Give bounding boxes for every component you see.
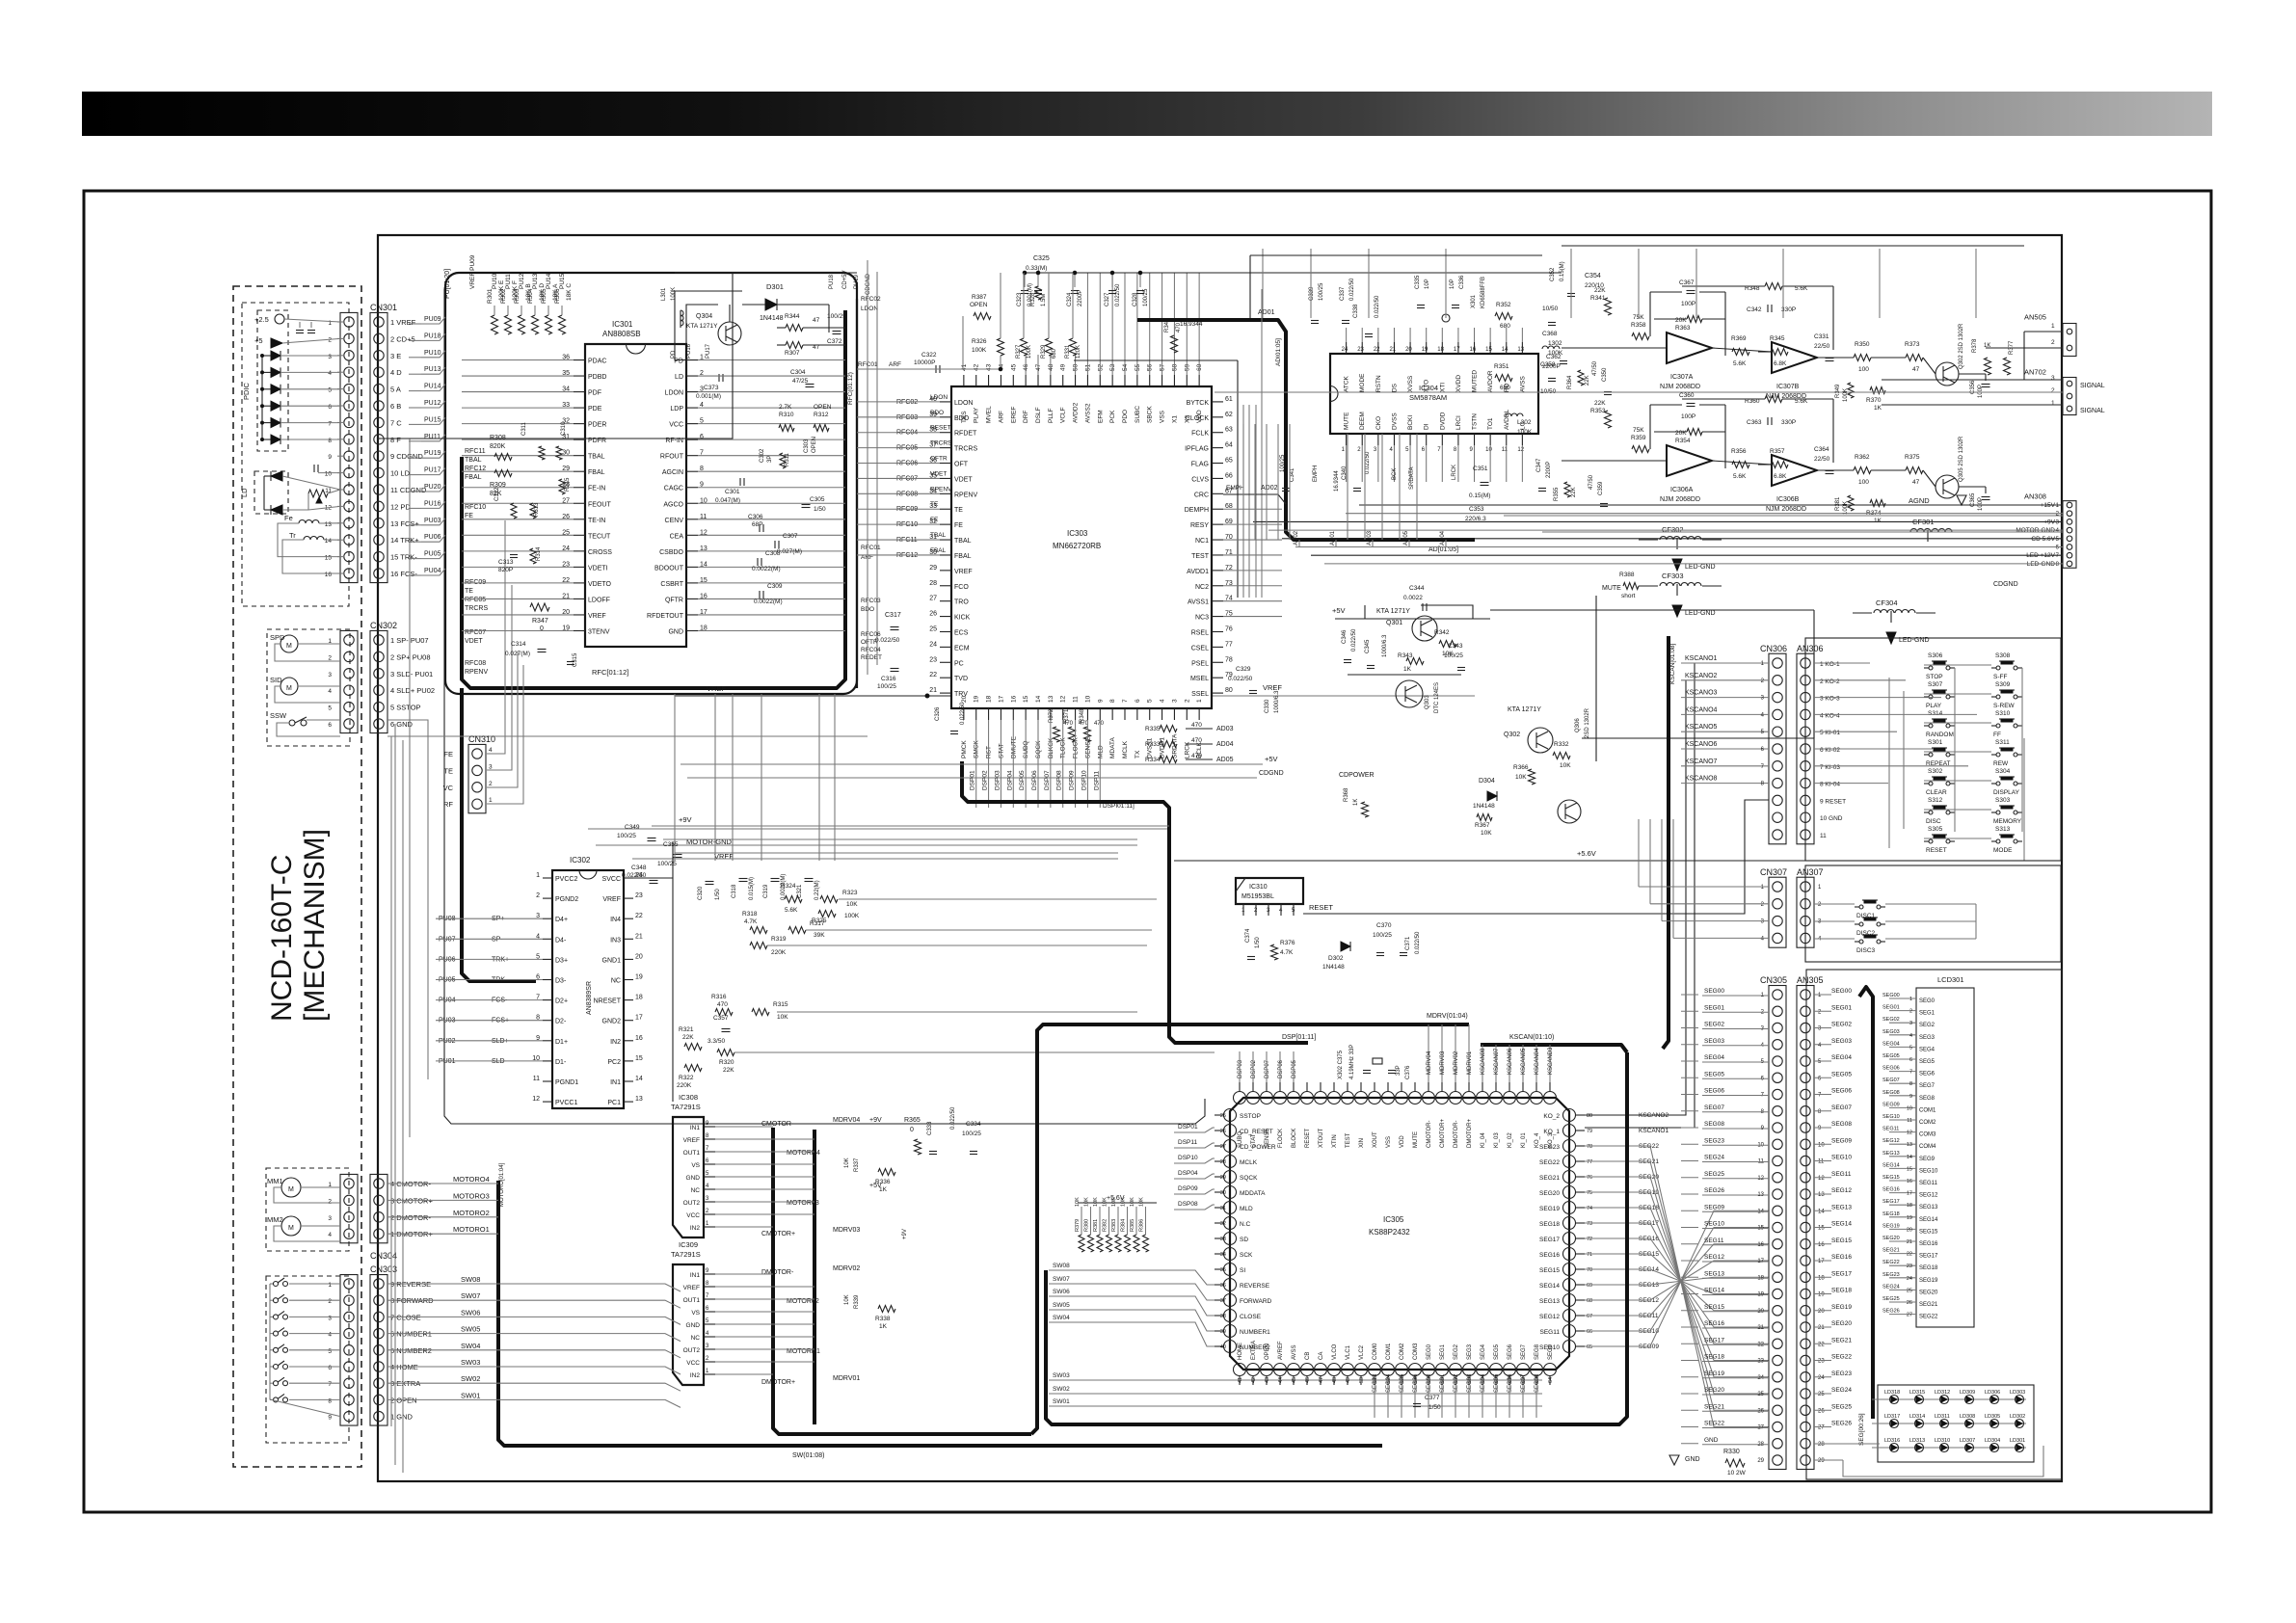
svg-text:1000/6.3: 1000/6.3 bbox=[1274, 690, 1280, 713]
svg-text:C351: C351 bbox=[1473, 466, 1488, 472]
svg-text:IN1: IN1 bbox=[690, 1272, 701, 1279]
svg-text:R380: R380 bbox=[1084, 1219, 1090, 1232]
svg-text:R366: R366 bbox=[1513, 764, 1529, 771]
svg-text:PC: PC bbox=[954, 660, 964, 667]
svg-text:18: 18 bbox=[986, 695, 993, 703]
svg-text:15 TRK-: 15 TRK- bbox=[390, 553, 417, 562]
svg-text:SEG00: SEG00 bbox=[1427, 1373, 1432, 1393]
svg-text:XTOUT: XTOUT bbox=[1319, 1128, 1324, 1148]
svg-text:OUT2: OUT2 bbox=[683, 1347, 701, 1354]
svg-text:C326: C326 bbox=[935, 706, 941, 721]
svg-text:S308: S308 bbox=[1995, 652, 2011, 659]
svg-text:470: 470 bbox=[1094, 721, 1105, 727]
svg-text:PDBD: PDBD bbox=[588, 374, 606, 381]
svg-text:10K: 10K bbox=[1093, 1197, 1099, 1207]
svg-text:SEG16: SEG16 bbox=[1539, 1252, 1560, 1259]
svg-text:R385: R385 bbox=[1130, 1219, 1135, 1232]
svg-text:PU12: PU12 bbox=[519, 273, 525, 289]
svg-text:1: 1 bbox=[328, 1282, 332, 1289]
svg-text:COM4: COM4 bbox=[1919, 1144, 1936, 1150]
svg-text:S310: S310 bbox=[1995, 710, 2011, 717]
svg-text:SEG07: SEG07 bbox=[1521, 1373, 1527, 1393]
svg-text:BDOOUT: BDOOUT bbox=[654, 565, 684, 572]
svg-text:1 GND: 1 GND bbox=[390, 1413, 414, 1422]
svg-text:8: 8 bbox=[1109, 699, 1116, 703]
svg-text:1N4148: 1N4148 bbox=[760, 315, 784, 322]
svg-text:RF: RF bbox=[443, 800, 453, 809]
svg-text:TECUT: TECUT bbox=[588, 533, 611, 540]
svg-text:DSP07: DSP07 bbox=[1044, 770, 1051, 790]
svg-text:SEG6: SEG6 bbox=[1508, 1344, 1513, 1360]
svg-text:DMOTOR-: DMOTOR- bbox=[761, 1269, 794, 1276]
svg-text:SEG21: SEG21 bbox=[1704, 1403, 1724, 1410]
svg-text:SPD: SPD bbox=[270, 633, 285, 642]
svg-text:+5V: +5V bbox=[1265, 755, 1278, 763]
svg-text:DSP02: DSP02 bbox=[982, 770, 989, 790]
svg-text:PU11: PU11 bbox=[424, 434, 441, 440]
svg-text:SEG9: SEG9 bbox=[1548, 1344, 1554, 1360]
svg-text:4: 4 bbox=[328, 370, 332, 377]
svg-text:VREF: VREF bbox=[683, 1285, 700, 1291]
svg-text:MOTORO[01:04]: MOTORO[01:04] bbox=[499, 1162, 505, 1207]
svg-text:MDATA: MDATA bbox=[1109, 737, 1116, 758]
svg-text:5 KI-01: 5 KI-01 bbox=[1820, 730, 1840, 736]
svg-text:FLAG: FLAG bbox=[1191, 462, 1209, 468]
svg-text:5: 5 bbox=[328, 1348, 332, 1355]
svg-text:MN662720RB: MN662720RB bbox=[1053, 542, 1101, 550]
svg-text:R306: R306 bbox=[554, 288, 561, 304]
svg-text:77: 77 bbox=[1587, 1159, 1592, 1165]
svg-text:19: 19 bbox=[974, 695, 980, 703]
svg-text:66: 66 bbox=[1587, 1329, 1592, 1335]
svg-text:+5V: +5V bbox=[1332, 606, 1346, 615]
svg-text:R384: R384 bbox=[1121, 1219, 1127, 1232]
svg-text:0: 0 bbox=[540, 625, 544, 632]
svg-text:AN505: AN505 bbox=[2024, 312, 2046, 321]
svg-text:PU12: PU12 bbox=[424, 400, 441, 407]
svg-text:PSEL: PSEL bbox=[1191, 660, 1209, 667]
svg-text:M: M bbox=[288, 1186, 294, 1193]
svg-text:7: 7 bbox=[1122, 699, 1129, 703]
svg-text:SEG17: SEG17 bbox=[1882, 1199, 1900, 1205]
svg-text:S-FF: S-FF bbox=[1993, 674, 2007, 680]
svg-text:66: 66 bbox=[1225, 472, 1233, 479]
svg-text:M: M bbox=[286, 643, 292, 650]
svg-text:EREF: EREF bbox=[1010, 407, 1017, 423]
svg-text:PC1: PC1 bbox=[607, 1100, 621, 1106]
svg-text:SBCK: SBCK bbox=[1147, 406, 1154, 423]
svg-text:FE: FE bbox=[443, 750, 453, 758]
svg-text:14: 14 bbox=[1035, 695, 1042, 703]
svg-text:PD: PD bbox=[671, 350, 677, 359]
svg-text:DISC: DISC bbox=[1926, 818, 1941, 825]
svg-text:SEG05: SEG05 bbox=[1831, 1071, 1852, 1078]
svg-text:PU19: PU19 bbox=[424, 450, 441, 457]
svg-text:XTO: XTO bbox=[1424, 380, 1430, 392]
svg-text:23: 23 bbox=[1907, 1264, 1912, 1269]
svg-text:R355: R355 bbox=[1554, 487, 1560, 501]
svg-text:680: 680 bbox=[1052, 348, 1057, 359]
svg-text:1N4148: 1N4148 bbox=[1322, 964, 1345, 971]
svg-text:S305: S305 bbox=[1928, 826, 1943, 833]
svg-text:PU16: PU16 bbox=[424, 500, 441, 507]
svg-text:C345: C345 bbox=[1365, 639, 1371, 653]
svg-text:0: 0 bbox=[910, 1127, 914, 1133]
svg-text:SEG12: SEG12 bbox=[1882, 1138, 1900, 1144]
svg-text:R371: R371 bbox=[1064, 708, 1070, 723]
svg-text:4 D: 4 D bbox=[390, 368, 402, 377]
svg-text:IN2: IN2 bbox=[690, 1225, 701, 1232]
svg-text:0.33(M): 0.33(M) bbox=[1026, 265, 1047, 272]
svg-text:SEG17: SEG17 bbox=[1539, 1237, 1560, 1243]
svg-text:GND: GND bbox=[686, 1322, 701, 1329]
svg-text:EMPH: EMPH bbox=[1226, 485, 1244, 492]
svg-text:CN301: CN301 bbox=[370, 303, 397, 312]
svg-text:DI: DI bbox=[1424, 423, 1430, 430]
svg-text:D3+: D3+ bbox=[555, 957, 568, 964]
svg-text:17: 17 bbox=[1907, 1191, 1912, 1197]
svg-text:19: 19 bbox=[635, 974, 643, 981]
svg-text:ATCK: ATCK bbox=[1344, 375, 1350, 392]
svg-text:SEG2: SEG2 bbox=[1454, 1344, 1459, 1360]
svg-text:SEG22: SEG22 bbox=[1704, 1421, 1724, 1427]
svg-text:7 C: 7 C bbox=[390, 418, 402, 427]
svg-text:2200P: 2200P bbox=[1546, 462, 1552, 478]
svg-text:SEG0: SEG0 bbox=[1427, 1344, 1432, 1360]
svg-text:C339: C339 bbox=[1309, 286, 1315, 301]
svg-text:SEG04: SEG04 bbox=[1882, 1041, 1900, 1047]
svg-text:SEG14: SEG14 bbox=[1539, 1283, 1560, 1290]
svg-text:SEG21: SEG21 bbox=[1882, 1248, 1900, 1254]
svg-text:NJM 2068DD: NJM 2068DD bbox=[1660, 496, 1700, 503]
svg-text:5.6K: 5.6K bbox=[1733, 360, 1747, 367]
svg-text:R357: R357 bbox=[1770, 448, 1785, 455]
svg-text:DSP06: DSP06 bbox=[1278, 1059, 1284, 1078]
svg-text:PU20: PU20 bbox=[424, 484, 441, 491]
svg-text:4.7K: 4.7K bbox=[744, 918, 758, 925]
svg-text:R348: R348 bbox=[1080, 708, 1085, 723]
svg-text:D3-: D3- bbox=[555, 978, 567, 985]
svg-text:0.001(M): 0.001(M) bbox=[696, 393, 721, 400]
svg-text:1/50: 1/50 bbox=[715, 889, 721, 900]
svg-text:SEG10: SEG10 bbox=[1882, 1114, 1900, 1120]
svg-text:PU19: PU19 bbox=[854, 274, 860, 289]
svg-text:SW02: SW02 bbox=[461, 1374, 480, 1383]
svg-text:16: 16 bbox=[1010, 695, 1017, 703]
svg-text:10P: 10P bbox=[1425, 279, 1430, 289]
svg-text:RESET: RESET bbox=[1926, 847, 1947, 854]
svg-text:9 RESET: 9 RESET bbox=[1820, 798, 1846, 805]
svg-text:SW05: SW05 bbox=[1053, 1302, 1070, 1309]
svg-text:2: 2 bbox=[2051, 339, 2055, 346]
svg-text:4 KO-4: 4 KO-4 bbox=[1820, 712, 1840, 719]
svg-text:25: 25 bbox=[1818, 1392, 1825, 1397]
svg-text:+5.6V: +5.6V bbox=[1107, 1195, 1125, 1202]
svg-text:64: 64 bbox=[1548, 1377, 1554, 1383]
svg-text:D4-: D4- bbox=[555, 937, 567, 944]
svg-text:820P: 820P bbox=[498, 567, 513, 573]
svg-text:SEG15: SEG15 bbox=[1919, 1229, 1938, 1235]
svg-text:LDON: LDON bbox=[665, 390, 683, 397]
svg-text:SEG16: SEG16 bbox=[1882, 1187, 1900, 1193]
svg-text:MSEL: MSEL bbox=[1190, 676, 1209, 682]
svg-text:19: 19 bbox=[1422, 347, 1428, 353]
svg-text:6: 6 bbox=[328, 404, 332, 411]
svg-text:38: 38 bbox=[1220, 1314, 1226, 1319]
svg-text:DMOTOR+: DMOTOR+ bbox=[1467, 1118, 1473, 1148]
svg-text:SEG18: SEG18 bbox=[1539, 1221, 1560, 1228]
svg-text:PVCC1: PVCC1 bbox=[555, 1100, 577, 1106]
svg-text:100K: 100K bbox=[1517, 429, 1533, 436]
svg-text:KSCAN05: KSCAN05 bbox=[1521, 1048, 1527, 1075]
svg-text:SEG22: SEG22 bbox=[1539, 1159, 1560, 1166]
svg-text:30: 30 bbox=[1220, 1190, 1226, 1196]
svg-text:26: 26 bbox=[1818, 1408, 1825, 1414]
svg-text:BLOCK: BLOCK bbox=[1292, 1129, 1297, 1148]
svg-text:R338: R338 bbox=[875, 1316, 891, 1322]
svg-text:62: 62 bbox=[1225, 412, 1233, 418]
svg-text:21: 21 bbox=[1907, 1239, 1912, 1245]
svg-text:31: 31 bbox=[1220, 1206, 1226, 1211]
svg-text:STOP: STOP bbox=[1926, 674, 1943, 680]
svg-text:CSBRT: CSBRT bbox=[660, 581, 683, 588]
svg-text:R358: R358 bbox=[1631, 322, 1646, 329]
svg-text:SEG9: SEG9 bbox=[1919, 1157, 1936, 1162]
svg-text:MCLK: MCLK bbox=[1240, 1159, 1258, 1166]
svg-text:PU13: PU13 bbox=[532, 273, 539, 289]
svg-text:R315: R315 bbox=[773, 1001, 788, 1008]
svg-text:C355: C355 bbox=[663, 841, 679, 848]
svg-text:DSP[01:11]: DSP[01:11] bbox=[1282, 1034, 1316, 1041]
svg-text:DS: DS bbox=[1391, 383, 1398, 392]
svg-text:15: 15 bbox=[1485, 347, 1492, 353]
svg-text:C346: C346 bbox=[1342, 629, 1348, 644]
svg-text:D4+: D4+ bbox=[555, 917, 568, 923]
svg-text:LD310: LD310 bbox=[1935, 1438, 1950, 1444]
svg-text:11 CDGND: 11 CDGND bbox=[390, 486, 427, 494]
svg-text:R356: R356 bbox=[1731, 448, 1747, 455]
svg-text:LD: LD bbox=[240, 488, 249, 497]
svg-text:25: 25 bbox=[1907, 1288, 1912, 1293]
svg-text:4: 4 bbox=[489, 747, 493, 754]
svg-text:2200P: 2200P bbox=[1078, 290, 1083, 306]
svg-text:4: 4 bbox=[328, 1232, 332, 1238]
svg-text:DSP04: DSP04 bbox=[1006, 770, 1013, 790]
svg-text:S311: S311 bbox=[1995, 739, 2010, 746]
svg-text:PU17: PU17 bbox=[424, 467, 441, 474]
svg-text:4 SLD+ PU02: 4 SLD+ PU02 bbox=[390, 686, 435, 695]
svg-text:47: 47 bbox=[813, 344, 820, 351]
svg-text:C310: C310 bbox=[561, 421, 567, 436]
svg-text:100/25: 100/25 bbox=[1373, 932, 1392, 939]
svg-text:MEMORY: MEMORY bbox=[1993, 818, 2022, 825]
svg-text:100P: 100P bbox=[1681, 413, 1695, 420]
svg-text:ARF: ARF bbox=[889, 361, 901, 368]
svg-text:MDRV01: MDRV01 bbox=[833, 1375, 860, 1382]
svg-text:AN308: AN308 bbox=[2024, 492, 2046, 500]
svg-text:4: 4 bbox=[1909, 1033, 1912, 1039]
svg-text:KSCAN06: KSCAN06 bbox=[1508, 1048, 1513, 1075]
svg-text:PGND1: PGND1 bbox=[555, 1079, 578, 1086]
svg-text:R321: R321 bbox=[679, 1026, 694, 1033]
svg-text:SQCK: SQCK bbox=[1240, 1175, 1258, 1182]
svg-text:SEG22: SEG22 bbox=[1919, 1315, 1938, 1320]
svg-text:100/25: 100/25 bbox=[877, 683, 896, 690]
svg-text:2200P: 2200P bbox=[1542, 363, 1561, 370]
svg-text:KI_02: KI_02 bbox=[1508, 1132, 1513, 1148]
svg-text:SEG08: SEG08 bbox=[1831, 1121, 1852, 1128]
svg-text:2SD 1302R: 2SD 1302R bbox=[1585, 707, 1590, 738]
svg-text:SEG02: SEG02 bbox=[1454, 1373, 1459, 1393]
svg-text:SEG12: SEG12 bbox=[1539, 1314, 1560, 1320]
svg-text:1K: 1K bbox=[879, 1323, 888, 1330]
svg-text:0.022/50: 0.022/50 bbox=[1375, 295, 1380, 318]
svg-text:3: 3 bbox=[1171, 699, 1178, 703]
svg-text:12 PD: 12 PD bbox=[390, 502, 411, 511]
svg-text:61: 61 bbox=[1225, 396, 1233, 403]
svg-text:RFC04: RFC04 bbox=[861, 647, 881, 653]
svg-text:78: 78 bbox=[1225, 656, 1233, 663]
svg-text:SEG09: SEG09 bbox=[1882, 1102, 1900, 1107]
svg-text:C376: C376 bbox=[1405, 1065, 1411, 1079]
svg-text:PC2: PC2 bbox=[607, 1059, 621, 1066]
svg-text:PU17: PU17 bbox=[706, 343, 711, 359]
svg-text:TRCRS: TRCRS bbox=[930, 440, 952, 447]
svg-text:MDDATA: MDDATA bbox=[1240, 1190, 1266, 1197]
svg-text:LD303: LD303 bbox=[2010, 1390, 2025, 1396]
svg-text:D302: D302 bbox=[1328, 955, 1344, 962]
svg-text:C325: C325 bbox=[1033, 255, 1050, 262]
svg-text:PU16: PU16 bbox=[686, 343, 692, 359]
svg-text:10 2W: 10 2W bbox=[1727, 1470, 1747, 1477]
svg-text:FLOCK: FLOCK bbox=[1278, 1129, 1284, 1148]
svg-text:SEG17: SEG17 bbox=[1831, 1270, 1852, 1277]
svg-text:+2.5: +2.5 bbox=[254, 315, 269, 324]
svg-text:18K C: 18K C bbox=[566, 283, 573, 301]
svg-text:C354: C354 bbox=[1585, 273, 1601, 279]
svg-text:EMPH: EMPH bbox=[1313, 466, 1319, 482]
svg-text:43: 43 bbox=[986, 363, 993, 371]
svg-text:3 SLD- PU01: 3 SLD- PU01 bbox=[390, 670, 433, 678]
svg-text:R320: R320 bbox=[719, 1059, 734, 1066]
svg-text:CMOTOR+: CMOTOR+ bbox=[761, 1231, 795, 1237]
svg-text:M51953BL: M51953BL bbox=[1241, 893, 1274, 900]
svg-text:MM1: MM1 bbox=[267, 1177, 283, 1185]
svg-text:DEEM: DEEM bbox=[1359, 412, 1366, 430]
svg-text:SEG03: SEG03 bbox=[1467, 1373, 1473, 1393]
svg-text:SW03: SW03 bbox=[461, 1358, 480, 1367]
svg-text:R372: R372 bbox=[1049, 708, 1055, 723]
svg-text:AD02: AD02 bbox=[1294, 530, 1299, 545]
svg-text:C319: C319 bbox=[763, 884, 769, 898]
svg-text:X301: X301 bbox=[1471, 294, 1477, 308]
svg-text:27: 27 bbox=[1907, 1313, 1912, 1318]
svg-text:REVERSE: REVERSE bbox=[1240, 1283, 1270, 1290]
svg-text:SEG1: SEG1 bbox=[1440, 1344, 1446, 1360]
svg-text:36: 36 bbox=[1220, 1283, 1226, 1289]
svg-text:TBAL: TBAL bbox=[465, 457, 482, 464]
svg-text:23: 23 bbox=[929, 656, 937, 663]
svg-text:DSP03: DSP03 bbox=[994, 770, 1001, 790]
svg-text:17: 17 bbox=[635, 1015, 643, 1022]
svg-text:RPENV: RPENV bbox=[930, 486, 952, 492]
svg-text:DSPI01:11]: DSPI01:11] bbox=[1103, 803, 1135, 810]
svg-text:74: 74 bbox=[1587, 1206, 1592, 1211]
svg-text:0.022/50: 0.022/50 bbox=[1349, 278, 1355, 301]
svg-text:SM5878AM: SM5878AM bbox=[1409, 393, 1447, 402]
svg-text:SEG8: SEG8 bbox=[1919, 1096, 1936, 1102]
svg-text:KSCANO1: KSCANO1 bbox=[1639, 1128, 1669, 1134]
svg-text:PU09: PU09 bbox=[424, 316, 441, 323]
svg-text:16: 16 bbox=[325, 572, 333, 578]
svg-text:470: 470 bbox=[1191, 737, 1202, 744]
svg-text:C362: C362 bbox=[1546, 354, 1562, 360]
svg-text:SEG01: SEG01 bbox=[1440, 1373, 1446, 1393]
svg-text:100/25: 100/25 bbox=[1444, 652, 1463, 659]
svg-text:RFC[01:12]: RFC[01:12] bbox=[592, 668, 628, 677]
svg-text:1 KO-1: 1 KO-1 bbox=[1820, 661, 1840, 668]
svg-text:39K: 39K bbox=[814, 932, 825, 939]
svg-text:REDET: REDET bbox=[861, 654, 882, 661]
svg-text:SEG26: SEG26 bbox=[1704, 1187, 1724, 1194]
svg-text:MOTORO3: MOTORO3 bbox=[453, 1191, 490, 1200]
svg-text:GND: GND bbox=[668, 628, 683, 635]
svg-text:PCK: PCK bbox=[1109, 410, 1116, 423]
svg-text:R331: R331 bbox=[1065, 344, 1071, 359]
svg-text:C377: C377 bbox=[1425, 1395, 1440, 1401]
svg-text:DVDD1: DVDD1 bbox=[1160, 737, 1166, 758]
svg-text:IC302: IC302 bbox=[570, 856, 591, 865]
svg-text:SEG11: SEG11 bbox=[1540, 1329, 1561, 1336]
svg-text:KS88P2432: KS88P2432 bbox=[1369, 1228, 1410, 1237]
svg-text:MDRV03: MDRV03 bbox=[1440, 1051, 1446, 1075]
svg-text:SEG17: SEG17 bbox=[1919, 1254, 1938, 1260]
svg-text:short: short bbox=[1621, 593, 1636, 599]
svg-text:AVSS2: AVSS2 bbox=[1084, 403, 1091, 423]
svg-text:PDE: PDE bbox=[588, 406, 602, 412]
svg-text:C360: C360 bbox=[1679, 392, 1695, 399]
svg-text:R388: R388 bbox=[1619, 572, 1635, 578]
svg-text:OPEN: OPEN bbox=[970, 302, 988, 308]
svg-text:N.C: N.C bbox=[1240, 1221, 1251, 1228]
svg-text:SEG16: SEG16 bbox=[1704, 1320, 1724, 1327]
svg-text:16: 16 bbox=[1470, 347, 1477, 353]
svg-text:PU04: PU04 bbox=[424, 568, 441, 574]
svg-text:SW02: SW02 bbox=[1053, 1386, 1070, 1393]
svg-text:RSTN: RSTN bbox=[1375, 375, 1382, 392]
svg-text:100: 100 bbox=[1858, 479, 1869, 486]
svg-text:MOTORD4: MOTORD4 bbox=[787, 1150, 820, 1157]
svg-text:3: 3 bbox=[328, 354, 332, 360]
svg-text:20: 20 bbox=[1405, 347, 1412, 353]
svg-text:TRO: TRO bbox=[954, 599, 969, 606]
svg-text:IC307B: IC307B bbox=[1776, 384, 1800, 390]
svg-text:PU13: PU13 bbox=[424, 366, 441, 373]
svg-text:CF303: CF303 bbox=[1662, 572, 1684, 580]
svg-text:Tr: Tr bbox=[289, 531, 296, 540]
svg-text:R370: R370 bbox=[1866, 397, 1882, 404]
svg-text:EFM: EFM bbox=[1097, 410, 1104, 423]
svg-text:TRCRS: TRCRS bbox=[465, 605, 488, 612]
svg-text:19: 19 bbox=[1907, 1215, 1912, 1221]
svg-text:220K: 220K bbox=[677, 1082, 692, 1089]
svg-text:PU15: PU15 bbox=[559, 273, 566, 289]
svg-text:PU03: PU03 bbox=[424, 518, 441, 524]
svg-text:L302: L302 bbox=[1517, 419, 1532, 426]
svg-text:SEG26: SEG26 bbox=[1831, 1421, 1852, 1427]
svg-text:VREF: VREF bbox=[588, 613, 606, 620]
svg-text:COM1: COM1 bbox=[1386, 1343, 1392, 1360]
